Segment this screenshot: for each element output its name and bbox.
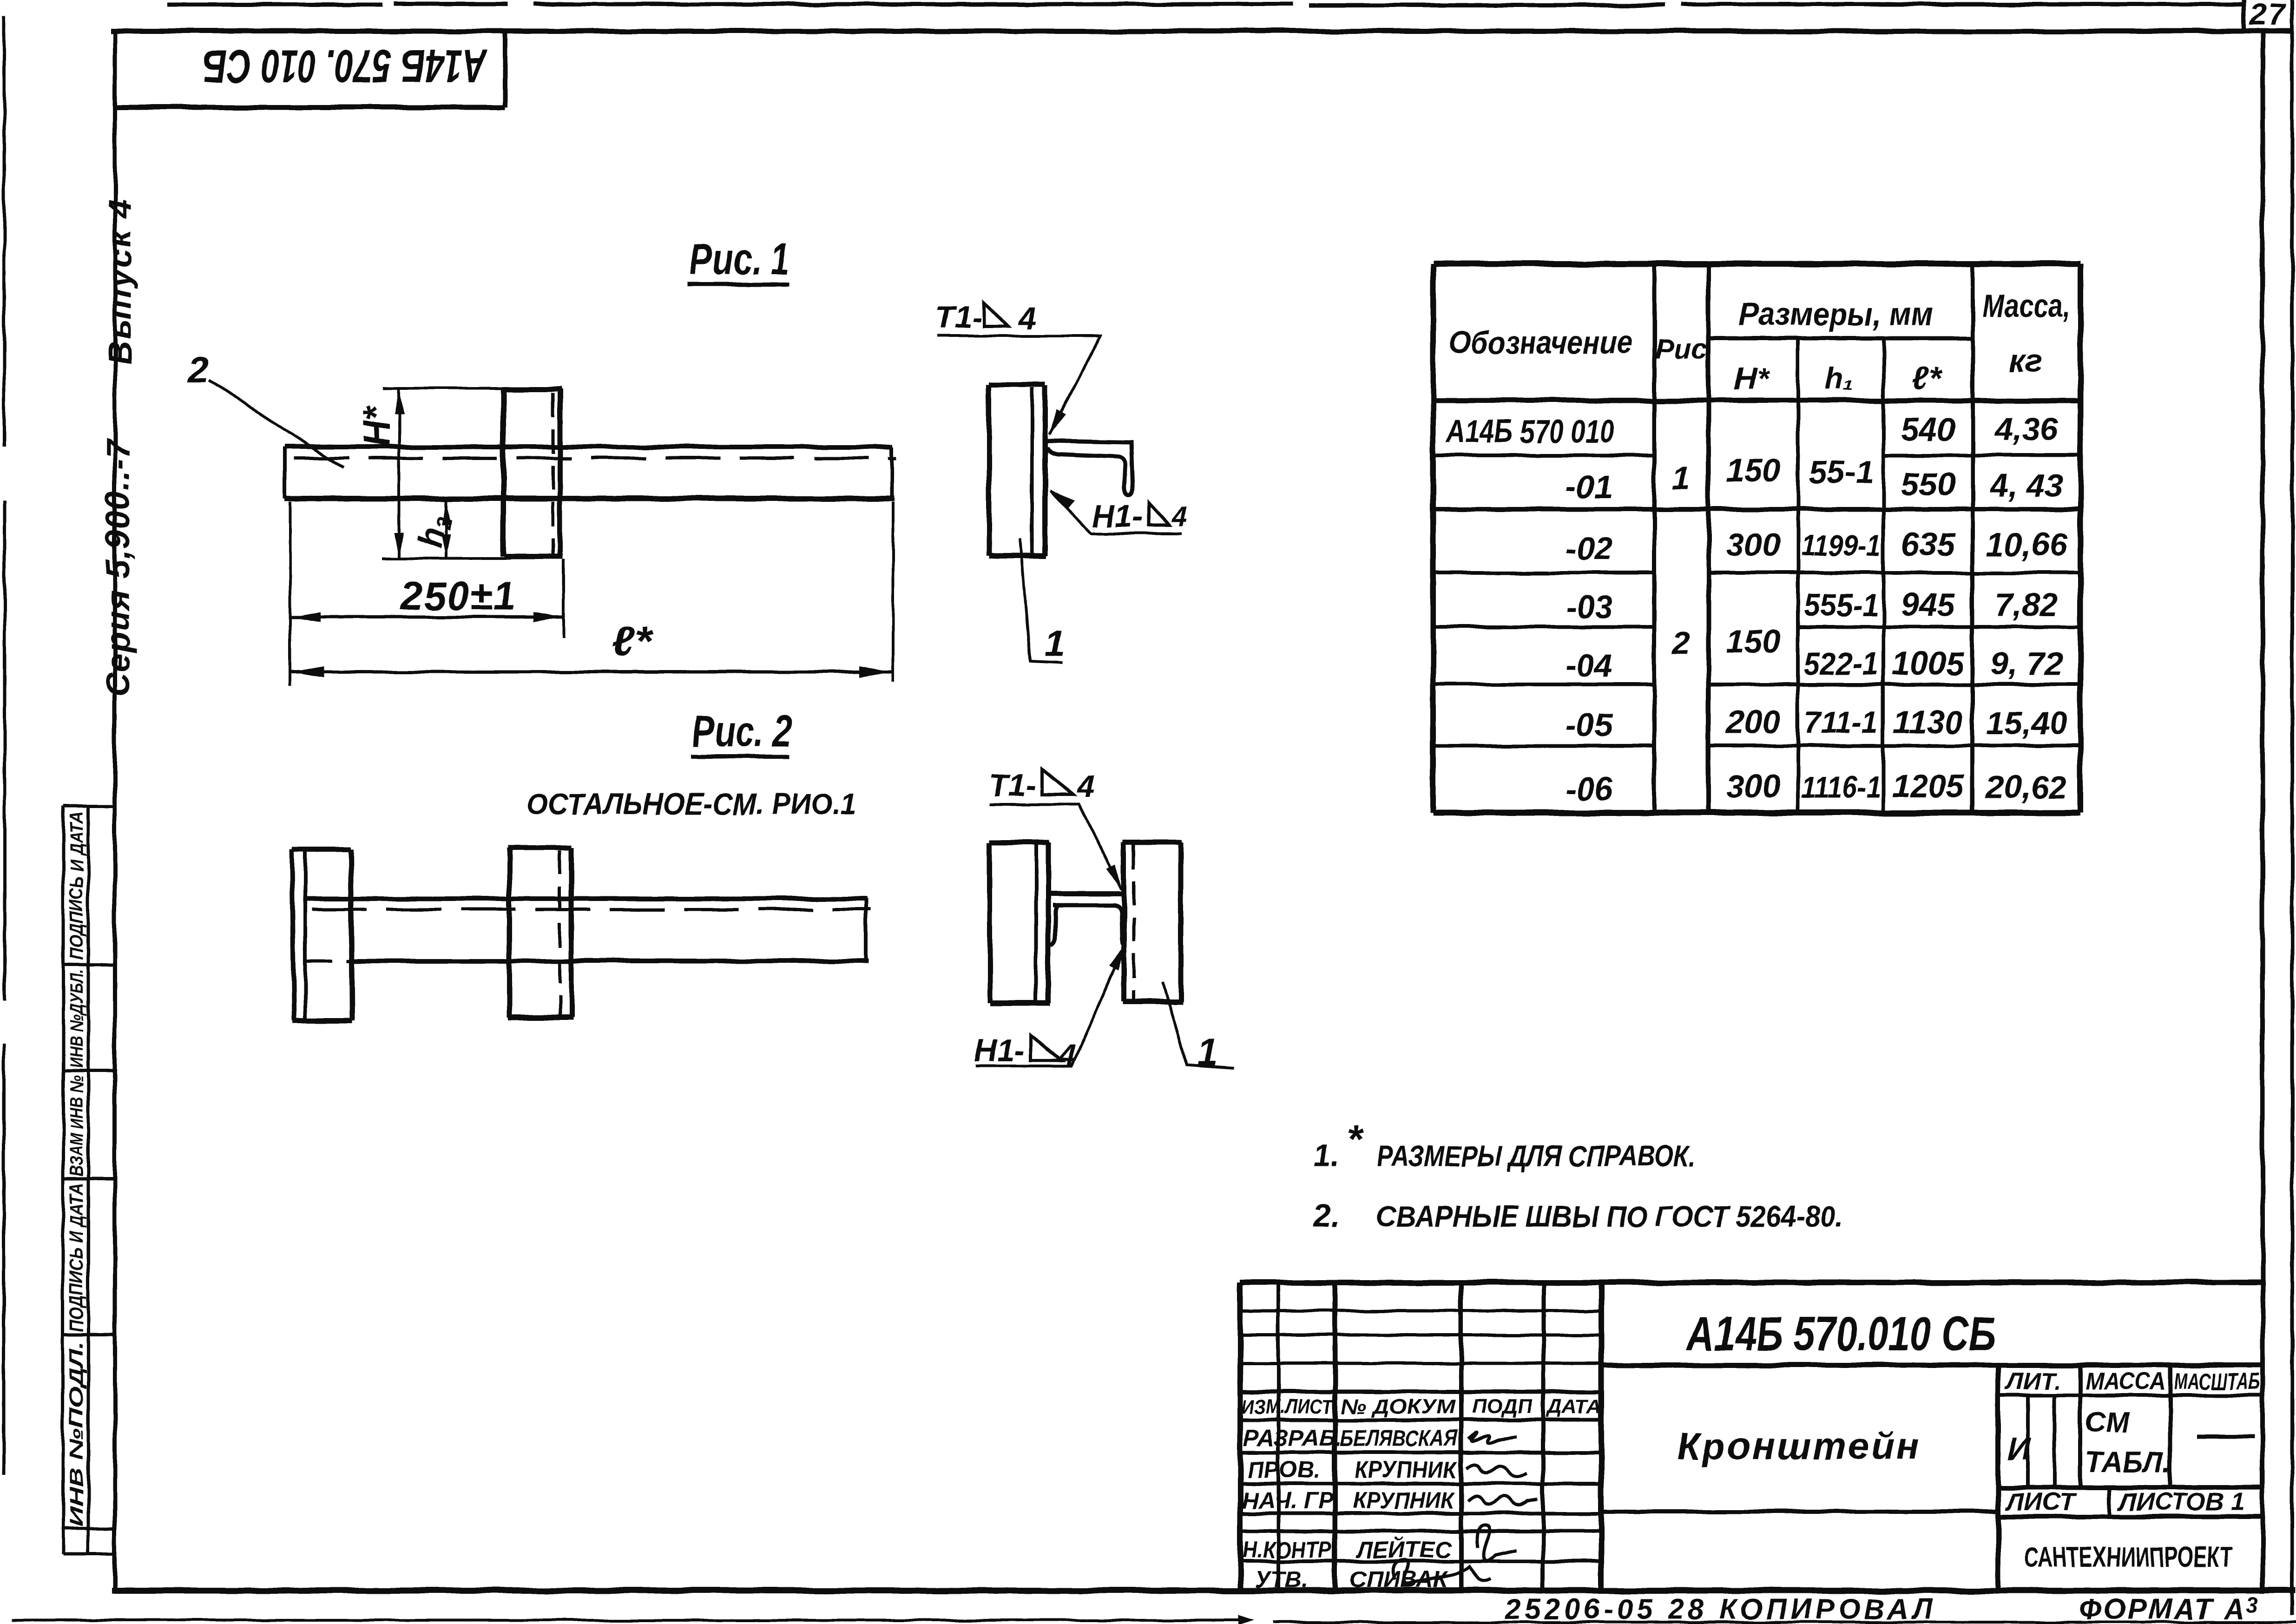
Рис.1 weld H1 arrow bbox=[1050, 490, 1074, 508]
svg-text:А14Б 570 010: А14Б 570 010 bbox=[1445, 413, 1614, 449]
svg-text:КРУПНИК: КРУПНИК bbox=[1355, 1457, 1458, 1483]
svg-text:25206-05 28 КОПИРОВАЛ: 25206-05 28 КОПИРОВАЛ bbox=[1504, 1593, 1936, 1624]
svg-text:150: 150 bbox=[1726, 452, 1781, 488]
dimension h2 bottom extension line bbox=[382, 557, 511, 560]
svg-text:ТАБЛ.: ТАБЛ. bbox=[2085, 1446, 2171, 1479]
svg-text:Н1-: Н1- bbox=[1092, 499, 1143, 534]
svg-text:1: 1 bbox=[1672, 460, 1691, 496]
svg-text:РАЗМЕРЫ ДЛЯ СПРАВОК.: РАЗМЕРЫ ДЛЯ СПРАВОК. bbox=[1376, 1139, 1696, 1173]
svg-text:-04: -04 bbox=[1566, 647, 1612, 684]
title block staff header bbox=[1242, 1395, 1601, 1418]
svg-text:55-1: 55-1 bbox=[1809, 454, 1874, 490]
svg-text:Рис. 1: Рис. 1 bbox=[690, 235, 789, 284]
Рис.1 weld symbol T1 triangle bbox=[984, 302, 1008, 326]
title block outer and main dividers bbox=[1240, 1282, 2263, 1591]
svg-text:540: 540 bbox=[1901, 411, 1955, 447]
dimension H* arrows bbox=[395, 389, 404, 414]
Рис.1 section: wall plate bbox=[989, 385, 1046, 556]
svg-text:КРУПНИК: КРУПНИК bbox=[1352, 1487, 1455, 1513]
dimension 250±1 arrows bbox=[291, 612, 321, 622]
svg-text:А14Б 570.010 СБ: А14Б 570.010 СБ bbox=[1686, 1307, 1996, 1361]
svg-text:7,82: 7,82 bbox=[1995, 586, 2058, 623]
svg-text:2: 2 bbox=[1671, 625, 1691, 661]
title block staff rows bbox=[1242, 1425, 1458, 1592]
dimension L* extension left bbox=[289, 502, 291, 685]
svg-text:2: 2 bbox=[187, 348, 209, 390]
svg-text:300: 300 bbox=[1726, 768, 1781, 804]
svg-text:27: 27 bbox=[2249, 0, 2287, 32]
frame border top bbox=[113, 29, 2291, 34]
dimension H* extension line bbox=[383, 387, 505, 390]
svg-text:ℓ*: ℓ* bbox=[1912, 361, 1942, 396]
Рис.2 weld T1 arrow bbox=[1107, 865, 1123, 891]
svg-text:УТВ.: УТВ. bbox=[1255, 1566, 1308, 1592]
title block scale dash bbox=[2197, 1435, 2255, 1439]
Рис.1 weld symbol H1 triangle bbox=[1149, 503, 1169, 525]
svg-text:ВЗАМ ИНВ №: ВЗАМ ИНВ № bbox=[66, 1075, 87, 1177]
svg-text:НАЧ. ГР: НАЧ. ГР bbox=[1242, 1487, 1334, 1513]
page number box line bbox=[2242, 1, 2246, 31]
svg-text:-06: -06 bbox=[1566, 771, 1613, 807]
svg-text:А14Б 570. 010 СБ: А14Б 570. 010 СБ bbox=[203, 40, 487, 92]
svg-text:ОСТАЛЬНОЕ-СМ. РИО.1: ОСТАЛЬНОЕ-СМ. РИО.1 bbox=[526, 787, 856, 821]
svg-text:555-1: 555-1 bbox=[1804, 587, 1878, 623]
sheet top edge scan line bbox=[170, 4, 2241, 5]
dimension 250±1 extension right bbox=[562, 559, 565, 638]
svg-text:ДАТА: ДАТА bbox=[1546, 1395, 1601, 1418]
svg-text:Н*: Н* bbox=[356, 404, 397, 447]
Рис.1 clamp plate bbox=[502, 389, 563, 557]
svg-text:*: * bbox=[1347, 1117, 1363, 1161]
svg-text:2.: 2. bbox=[1312, 1198, 1340, 1234]
svg-text:Рис: Рис bbox=[1655, 333, 1708, 365]
frame border left bbox=[113, 31, 117, 1591]
part leader 2 bbox=[209, 380, 343, 468]
svg-text:Обозначение: Обозначение bbox=[1449, 325, 1633, 360]
svg-text:1005: 1005 bbox=[1892, 645, 1965, 682]
svg-text:Выпуск 4: Выпуск 4 bbox=[101, 198, 138, 365]
Рис.1 part leader 1 bbox=[1020, 538, 1063, 663]
svg-text:ПРОВ.: ПРОВ. bbox=[1247, 1457, 1321, 1483]
svg-text:4: 4 bbox=[1171, 501, 1187, 532]
svg-text:522-1: 522-1 bbox=[1804, 646, 1878, 682]
Рис.2 beam bbox=[304, 899, 871, 961]
svg-text:1.: 1. bbox=[1313, 1138, 1340, 1173]
dimension 250±1 line bbox=[290, 616, 564, 619]
svg-text:1: 1 bbox=[1045, 623, 1066, 664]
svg-text:-02: -02 bbox=[1566, 530, 1612, 566]
svg-text:1: 1 bbox=[1197, 1032, 1218, 1073]
svg-text:635: 635 bbox=[1901, 526, 1956, 563]
svg-text:СМ: СМ bbox=[2085, 1407, 2131, 1439]
svg-text:кг: кг bbox=[2009, 342, 2043, 379]
sheet right edge line bbox=[2290, 1, 2294, 1613]
dimension L* extension right bbox=[892, 502, 895, 682]
svg-text:-01: -01 bbox=[1566, 469, 1612, 505]
sheet left edge scan line bbox=[4, 18, 5, 1473]
svg-text:300: 300 bbox=[1726, 526, 1781, 563]
svg-text:ПОДПИСЬ И ДАТА: ПОДПИСЬ И ДАТА bbox=[66, 1183, 87, 1332]
Рис.1 weld T1 arrow bbox=[1049, 409, 1066, 435]
Рис.2 weld H1 leader bbox=[975, 946, 1125, 1066]
margin block grid bbox=[63, 806, 115, 1554]
svg-text:ИЗМ.ЛИСТ: ИЗМ.ЛИСТ bbox=[1242, 1395, 1334, 1418]
Рис.1 weld H1 leader bbox=[1051, 491, 1182, 533]
table grid bbox=[1433, 264, 2080, 813]
svg-text:ИНВ №ДУБЛ.: ИНВ №ДУБЛ. bbox=[66, 969, 87, 1068]
Рис.2 section: left plate bbox=[990, 842, 1050, 1003]
svg-text:Н1-: Н1- bbox=[974, 1033, 1025, 1068]
svg-text:Н*: Н* bbox=[1733, 361, 1770, 396]
frame border right bbox=[2260, 31, 2265, 1591]
Рис.1 beam (channel side view) bbox=[284, 447, 897, 499]
svg-text:БЕЛЯВСКАЯ: БЕЛЯВСКАЯ bbox=[1340, 1425, 1458, 1451]
Рис.2 weld symbol T1 triangle bbox=[1042, 769, 1073, 795]
dimension L* arrows bbox=[291, 666, 324, 677]
svg-text:1116-1: 1116-1 bbox=[1801, 769, 1881, 804]
svg-text:МАСШТАБ: МАСШТАБ bbox=[2174, 1368, 2260, 1394]
svg-text:САНТЕХНИИПРОЕКТ: САНТЕХНИИПРОЕКТ bbox=[2024, 1541, 2232, 1573]
Рис.2 left end plate bbox=[292, 849, 352, 1021]
svg-text:4: 4 bbox=[1018, 301, 1036, 336]
title block name cell lines bbox=[1601, 1365, 2263, 1591]
dimension h2 line bbox=[444, 501, 447, 559]
signatures squiggles bbox=[1393, 1432, 1538, 1584]
svg-text:20,62: 20,62 bbox=[1985, 769, 2067, 805]
Рис.2 weld H1 arrow bbox=[1110, 944, 1126, 970]
svg-text:ПОДП: ПОДП bbox=[1472, 1395, 1533, 1418]
svg-text:4,36: 4,36 bbox=[1994, 411, 2059, 447]
Рис.2 weld symbol H1 triangle bbox=[1031, 1035, 1061, 1060]
Рис.2 middle plate bbox=[508, 848, 573, 1018]
Рис.1 weld T1 leader bbox=[937, 336, 1100, 434]
svg-text:250±1: 250±1 bbox=[400, 574, 516, 618]
svg-text:ЛИСТОВ 1: ЛИСТОВ 1 bbox=[2117, 1488, 2245, 1516]
svg-text:ИНВ №ПОДЛ.: ИНВ №ПОДЛ. bbox=[66, 1341, 87, 1527]
svg-text:ℓ*: ℓ* bbox=[612, 618, 653, 665]
svg-text:СВАРНЫЕ ШВЫ ПО ГОСТ 5264-80: СВАРНЫЕ ШВЫ ПО ГОСТ 5264-80. bbox=[1376, 1200, 1843, 1233]
dimension L* line bbox=[290, 671, 893, 674]
svg-text:Серия 5,900..-7: Серия 5,900..-7 bbox=[99, 438, 137, 697]
svg-text:1199-1: 1199-1 bbox=[1801, 528, 1881, 562]
svg-text:Т1-: Т1- bbox=[935, 300, 982, 335]
svg-text:Кронштейн: Кронштейн bbox=[1677, 1425, 1921, 1467]
svg-text:h2: h2 bbox=[411, 512, 456, 551]
svg-text:Рис. 2: Рис. 2 bbox=[692, 707, 792, 756]
Рис.1 caption underline bbox=[687, 283, 790, 287]
svg-text:ЛИТ.: ЛИТ. bbox=[2005, 1368, 2061, 1395]
title block doc number line bbox=[1601, 1363, 2263, 1368]
svg-text:945: 945 bbox=[1901, 586, 1956, 623]
svg-text:Размеры, мм: Размеры, мм bbox=[1739, 296, 1934, 332]
Рис.2 section: channel profile between plates bbox=[1049, 894, 1125, 947]
svg-text:МАССА: МАССА bbox=[2085, 1368, 2165, 1395]
svg-text:1130: 1130 bbox=[1893, 704, 1963, 740]
svg-text:15,40: 15,40 bbox=[1986, 705, 2067, 741]
svg-text:200: 200 bbox=[1725, 704, 1781, 740]
svg-text:Н.КОНТР: Н.КОНТР bbox=[1243, 1537, 1332, 1563]
svg-text:150: 150 bbox=[1726, 623, 1781, 659]
svg-text:ПОДПИСЬ И ДАТА: ПОДПИСЬ И ДАТА bbox=[66, 811, 87, 960]
svg-text:И: И bbox=[2007, 1431, 2032, 1467]
margin block labels bbox=[66, 811, 87, 1527]
sheet bottom edge line with fold arrow bbox=[14, 1620, 2296, 1622]
Рис.2 caption underline bbox=[691, 755, 790, 759]
svg-text:ЛИСТ: ЛИСТ bbox=[2005, 1488, 2076, 1516]
svg-text:9, 72: 9, 72 bbox=[1990, 645, 2063, 682]
svg-text:РАЗРАБ.: РАЗРАБ. bbox=[1243, 1425, 1342, 1451]
Рис.2 part leader 1 bbox=[1163, 981, 1234, 1068]
svg-text:4: 4 bbox=[1076, 769, 1095, 804]
svg-text:№ ДОКУМ: № ДОКУМ bbox=[1341, 1395, 1455, 1418]
Рис.1 section: channel profile bbox=[1046, 441, 1132, 495]
svg-text:ФОРМАТ А3: ФОРМАТ А3 bbox=[2079, 1593, 2260, 1624]
svg-text:h₁: h₁ bbox=[1824, 362, 1854, 396]
svg-text:Т1-: Т1- bbox=[989, 768, 1036, 803]
dimension h2 arrows bbox=[441, 502, 450, 525]
svg-text:10,66: 10,66 bbox=[1986, 526, 2067, 563]
top-left stamp box bbox=[115, 31, 505, 107]
svg-text:-03: -03 bbox=[1566, 589, 1612, 625]
Рис.2 weld T1 leader bbox=[990, 804, 1122, 889]
frame border bottom bbox=[115, 1588, 2293, 1594]
svg-text:550: 550 bbox=[1901, 466, 1955, 502]
Рис.2 section: right plate bbox=[1123, 842, 1183, 1001]
svg-text:711-1: 711-1 bbox=[1804, 705, 1878, 740]
svg-text:Масса,: Масса, bbox=[1982, 288, 2070, 324]
svg-text:1205: 1205 bbox=[1892, 768, 1965, 804]
dimension H* line bbox=[398, 388, 401, 559]
svg-text:-05: -05 bbox=[1566, 707, 1613, 743]
svg-text:4, 43: 4, 43 bbox=[1989, 467, 2063, 503]
